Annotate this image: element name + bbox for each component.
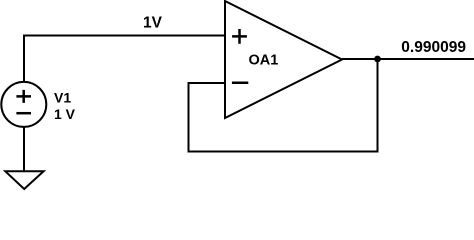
svg-text:1V: 1V bbox=[143, 15, 163, 32]
voltage source V1 bbox=[1, 82, 46, 127]
node output label 0.990099 bbox=[401, 39, 466, 56]
wire from V1 top to op-amp non-inverting input bbox=[24, 36, 225, 83]
junction dot bbox=[374, 56, 381, 63]
svg-text:OA1: OA1 bbox=[249, 53, 279, 69]
feedback wire from output junction to inverting input bbox=[189, 59, 378, 152]
op-amp OA1 bbox=[225, 1, 342, 118]
svg-text:0.990099: 0.990099 bbox=[401, 39, 466, 56]
output wire bbox=[342, 58, 474, 60]
ground bbox=[5, 171, 43, 189]
svg-text:V1: V1 bbox=[54, 90, 71, 106]
node 1V label bbox=[143, 15, 163, 32]
svg-text:1 V: 1 V bbox=[54, 106, 76, 122]
label V1 with value 1 V bbox=[54, 90, 76, 123]
wire from V1 bottom to ground bbox=[23, 127, 25, 171]
